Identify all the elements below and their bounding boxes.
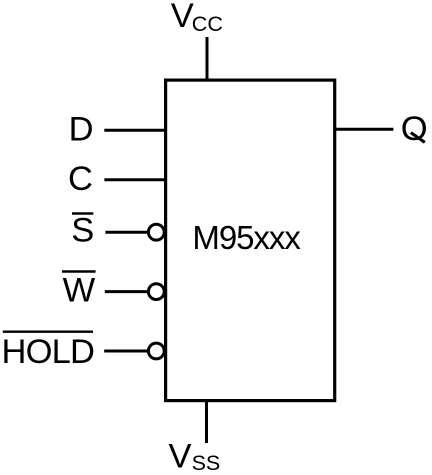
chip body U1 M95xxx xyxy=(166,80,335,401)
wire VSS xyxy=(205,401,208,443)
svg-text:V: V xyxy=(169,438,192,475)
wire D xyxy=(104,129,165,132)
svg-text:CC: CC xyxy=(192,12,223,36)
power label VCC xyxy=(171,0,223,36)
bubble HOLD (inversion circle) xyxy=(148,343,164,359)
wire HOLD xyxy=(104,350,148,353)
svg-text:V: V xyxy=(171,0,194,35)
wire C xyxy=(104,178,165,181)
pin label HOLD (active low) xyxy=(2,332,95,371)
svg-text:M95xxx: M95xxx xyxy=(192,219,301,256)
wire Q xyxy=(335,128,393,131)
wire VCC xyxy=(206,37,209,80)
bubble S (inversion circle) xyxy=(148,224,164,240)
power label VSS xyxy=(169,438,221,475)
pin label S (active low) xyxy=(71,212,94,250)
svg-text:SS: SS xyxy=(192,451,221,475)
bubble W (inversion circle) xyxy=(148,284,164,300)
svg-text:D: D xyxy=(69,111,94,149)
svg-text:C: C xyxy=(68,160,93,198)
wire W xyxy=(105,290,148,293)
svg-text:S: S xyxy=(71,212,94,250)
wire S xyxy=(105,231,148,234)
pin label W (active low) xyxy=(62,272,96,310)
svg-text:HOLD: HOLD xyxy=(2,333,95,371)
pin label Q xyxy=(401,110,428,148)
svg-text:W: W xyxy=(63,272,96,310)
